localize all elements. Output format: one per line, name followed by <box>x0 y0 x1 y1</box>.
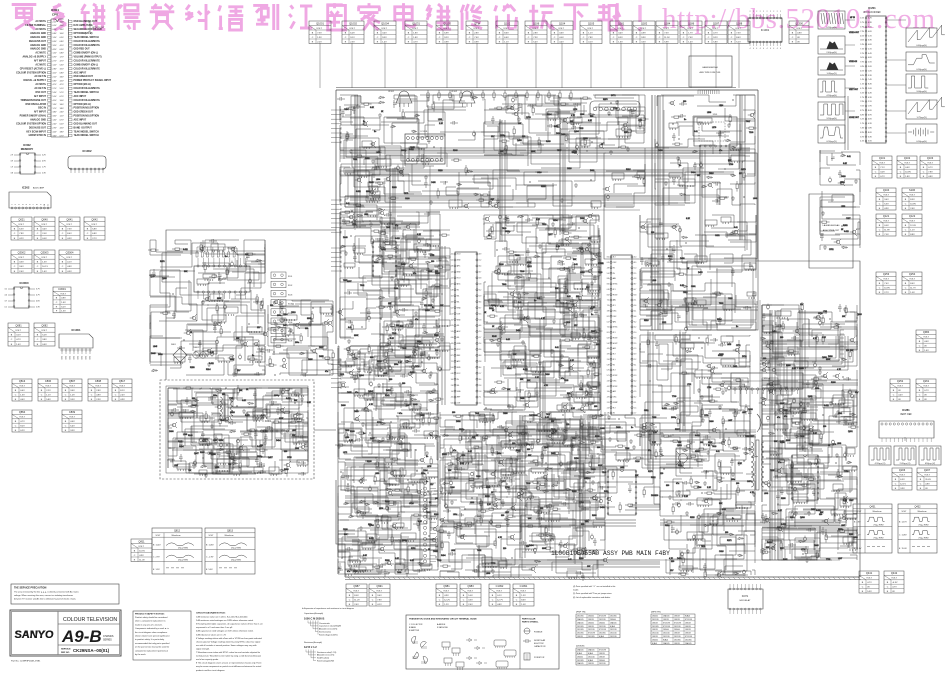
svg-text:KEY SCAN INPUT: KEY SCAN INPUT <box>26 130 46 133</box>
svg-text:R578: R578 <box>203 439 208 441</box>
wire <box>640 335 663 363</box>
svg-text:0.01: 0.01 <box>847 156 851 158</box>
resistor T239 <box>239 463 241 468</box>
svg-text:T239: T239 <box>526 483 530 485</box>
svg-text:1.9V: 1.9V <box>868 106 872 108</box>
svg-text:6.8K: 6.8K <box>242 400 247 402</box>
svg-text:1.3V: 1.3V <box>53 104 58 106</box>
capacitor L992 <box>679 102 687 106</box>
wire <box>387 327 440 374</box>
svg-text:0.3V: 0.3V <box>860 66 864 68</box>
resistor D805 <box>729 117 731 122</box>
wire <box>422 191 489 207</box>
wire <box>484 296 507 305</box>
svg-text:0.022: 0.022 <box>695 435 700 437</box>
wire <box>488 286 511 302</box>
op-amp IC281 vertical deflection <box>879 408 934 442</box>
wire <box>342 301 353 309</box>
svg-text:C: C <box>439 37 441 39</box>
svg-text:D758: D758 <box>574 458 579 460</box>
junction <box>835 462 836 463</box>
wire <box>514 346 560 371</box>
wire <box>208 283 240 301</box>
component block <box>588 356 598 363</box>
wire <box>796 528 815 542</box>
wire <box>374 169 421 181</box>
transistor voltage table Q3003 <box>34 250 55 273</box>
wire <box>310 337 333 375</box>
svg-text:KTC3198: KTC3198 <box>674 622 681 624</box>
wire <box>150 240 183 252</box>
component block <box>200 416 210 421</box>
wire <box>340 365 361 377</box>
capacitor C869 <box>472 132 475 135</box>
capacitor R541 <box>732 411 740 415</box>
svg-text:6.8K: 6.8K <box>363 555 368 557</box>
svg-text:L121: L121 <box>340 374 344 376</box>
svg-text:E: E <box>37 344 39 346</box>
wire <box>526 257 562 298</box>
ground <box>207 362 211 366</box>
wire <box>686 298 728 327</box>
wire <box>274 339 296 355</box>
wire <box>185 429 225 446</box>
diode D538 <box>558 364 564 367</box>
svg-text:1.8V: 1.8V <box>413 32 418 34</box>
voltage table Q206 <box>892 468 912 490</box>
svg-text:OSC: OSC <box>613 310 617 312</box>
component block <box>214 434 222 439</box>
wire <box>567 228 599 254</box>
op-amp IC302 audio amplifier <box>9 186 51 210</box>
svg-text:2.2V: 2.2V <box>46 390 51 392</box>
svg-text:FUSIBLE: FUSIBLE <box>534 632 543 634</box>
transistor Q973 <box>510 292 513 295</box>
svg-text:4.4V: 4.4V <box>868 92 872 94</box>
svg-text:2.4: 2.4 <box>607 359 609 361</box>
wire <box>820 327 857 336</box>
ground <box>300 397 304 401</box>
svg-text:are with all controls at norma: are with all controls at normal position… <box>196 644 257 647</box>
wire <box>230 459 259 472</box>
svg-text:100: 100 <box>763 358 766 360</box>
svg-text:1.3V: 1.3V <box>42 262 47 264</box>
wire <box>268 328 294 346</box>
diode D709 <box>730 146 736 149</box>
wire <box>850 555 857 560</box>
wire <box>473 95 526 96</box>
svg-text:C758: C758 <box>704 415 709 417</box>
resistor C130 <box>371 239 373 244</box>
transistor Q819 <box>762 368 765 371</box>
svg-text:T826: T826 <box>515 255 519 257</box>
capacitor R599 <box>213 325 217 333</box>
svg-text:COLOUR KILLER/MUTE: COLOUR KILLER/MUTE <box>74 41 101 43</box>
svg-text:Q122: Q122 <box>909 214 916 218</box>
svg-text:T465: T465 <box>520 398 524 400</box>
memory IC002 <box>11 143 47 175</box>
svg-text:B: B <box>583 32 585 34</box>
svg-text:AFT INPUT: AFT INPUT <box>34 111 47 114</box>
transistor voltage table Q082 <box>34 323 55 346</box>
svg-text:5.8V: 5.8V <box>92 229 97 231</box>
wire <box>412 164 431 185</box>
component block <box>197 279 209 284</box>
svg-text:1K: 1K <box>601 144 604 146</box>
resistor R113 <box>191 405 196 407</box>
transistor Q957 <box>494 270 497 273</box>
svg-text:-2.8V: -2.8V <box>857 548 862 550</box>
svg-text:3.3V: 3.3V <box>70 430 75 432</box>
svg-text:C1091: C1091 <box>520 584 528 588</box>
resistor D874 <box>588 402 593 404</box>
svg-text:330: 330 <box>651 232 654 234</box>
svg-text:0.9V: 0.9V <box>641 32 646 34</box>
wire <box>484 215 538 226</box>
wire <box>194 388 228 404</box>
transistor Q768 <box>464 204 467 207</box>
transistor Q422 <box>771 546 774 549</box>
wire <box>663 188 688 205</box>
wire <box>560 278 581 292</box>
svg-text:1.5: 1.5 <box>634 407 636 409</box>
wire <box>835 477 857 503</box>
svg-text:VOLT: VOLT <box>496 591 502 593</box>
wire <box>671 283 735 313</box>
svg-text:VERT OUT: VERT OUT <box>849 89 859 91</box>
capacitor C823 <box>813 363 816 366</box>
svg-text:330: 330 <box>666 485 669 487</box>
svg-text:R826: R826 <box>579 558 584 560</box>
wire <box>532 375 599 402</box>
resistor R346 <box>175 248 180 250</box>
wire <box>794 424 839 444</box>
capacitor R938 <box>762 313 766 321</box>
wire <box>384 181 422 194</box>
svg-text:E: E <box>91 399 93 401</box>
svg-text:T858: T858 <box>397 572 401 574</box>
circuit cluster east mid <box>640 215 756 333</box>
svg-text:C: C <box>345 37 347 39</box>
wire <box>754 182 756 197</box>
component block <box>791 403 805 408</box>
component block <box>174 357 185 362</box>
wire <box>267 388 308 419</box>
capacitor Q161 <box>209 239 217 243</box>
wire <box>812 330 839 337</box>
resistor L345 <box>200 245 202 250</box>
wire <box>212 414 221 428</box>
ground <box>274 322 278 326</box>
svg-text:1.1V: 1.1V <box>588 32 593 34</box>
svg-text:3.6V: 3.6V <box>60 29 65 31</box>
capacitor D244 <box>300 373 308 377</box>
resistor Q745 <box>560 268 565 270</box>
wire <box>786 465 811 478</box>
wire <box>536 302 567 329</box>
svg-text:1.8: 1.8 <box>479 391 481 393</box>
svg-text:SND: SND <box>457 260 461 262</box>
svg-text:3.4V: 3.4V <box>377 595 382 597</box>
svg-text:4.9V: 4.9V <box>444 595 449 597</box>
svg-text:B: B <box>900 167 902 169</box>
svg-text:E: E <box>636 41 638 43</box>
wire <box>646 309 672 324</box>
component block <box>395 279 409 285</box>
capacitor L368 <box>713 182 721 186</box>
diode D597 <box>276 326 282 329</box>
wire <box>185 330 203 350</box>
svg-text:3.5V: 3.5V <box>19 262 24 264</box>
svg-text:4.7K: 4.7K <box>500 306 505 308</box>
capacitor T806 <box>768 389 776 393</box>
svg-text:B: B <box>875 167 877 169</box>
wire <box>386 344 424 374</box>
svg-text:B: B <box>37 262 39 264</box>
wire <box>292 300 333 316</box>
diode D177 <box>421 297 427 300</box>
wire <box>226 399 291 407</box>
wire <box>364 147 385 165</box>
circuit cluster tuner/IF front end <box>345 95 645 209</box>
wire <box>801 534 815 557</box>
svg-text:Q405: Q405 <box>517 140 522 142</box>
svg-text:3.4: 3.4 <box>451 379 453 381</box>
transistor Q566 <box>563 118 566 121</box>
junction <box>273 351 274 352</box>
wire <box>675 308 708 330</box>
svg-text:1K: 1K <box>429 502 432 504</box>
svg-text:8.3V: 8.3V <box>618 37 623 39</box>
svg-text:3.4V: 3.4V <box>382 32 387 34</box>
svg-text:C: C <box>583 37 585 39</box>
transistor Q622 <box>514 112 517 115</box>
svg-text:IC451: IC451 <box>764 378 771 380</box>
capacitor L293 <box>669 407 677 411</box>
wire <box>416 273 440 294</box>
svg-text:4.0: 4.0 <box>5 295 8 297</box>
svg-text:1K: 1K <box>492 310 495 312</box>
svg-text:Q227: Q227 <box>548 234 553 236</box>
svg-text:Q442: Q442 <box>891 571 898 575</box>
svg-text:47u: 47u <box>399 413 402 415</box>
wire <box>832 329 857 366</box>
svg-text:3 Excepting electrolytic capa: 3 Excepting electrolytic capacitors, all… <box>196 623 264 626</box>
ground <box>806 402 810 406</box>
svg-text:330K: 330K <box>780 403 785 405</box>
capacitor C239 <box>678 228 681 231</box>
resistor Q640 <box>595 330 600 332</box>
svg-text:6.0V: 6.0V <box>350 32 355 34</box>
svg-text:AC MUTE: AC MUTE <box>35 63 46 66</box>
component block <box>576 392 588 397</box>
capacitor D252 <box>491 116 495 124</box>
svg-text:4.2V: 4.2V <box>53 49 58 51</box>
junction <box>294 402 295 403</box>
component block <box>449 200 462 207</box>
wire <box>301 370 330 375</box>
transistor Q534 <box>850 338 853 341</box>
diode D932 <box>375 258 381 261</box>
resistor L411 <box>285 469 287 474</box>
wire <box>366 155 390 170</box>
voltage table Q807 <box>62 379 82 401</box>
junction <box>678 341 679 342</box>
wire <box>189 280 209 305</box>
svg-text:Q207: Q207 <box>924 468 931 472</box>
wire <box>674 335 712 342</box>
wire <box>270 405 279 413</box>
wire <box>652 235 736 263</box>
svg-text:3.0: 3.0 <box>451 349 453 351</box>
wire <box>532 225 586 244</box>
resistor C987 <box>679 273 684 275</box>
component block <box>248 356 262 360</box>
svg-text:IN: IN <box>613 364 615 366</box>
svg-text:(5) Parts specified with“2”are: (5) Parts specified with“2”are pot jumpe… <box>573 592 612 595</box>
svg-text:1.0V: 1.0V <box>521 604 526 606</box>
transistor Q643 <box>406 225 409 228</box>
wire <box>560 345 584 368</box>
transistor Q152 <box>217 322 220 325</box>
diode D337 <box>557 260 564 263</box>
svg-text:3.5Vp-p(H): 3.5Vp-p(H) <box>826 118 836 120</box>
waveform box 2.0Vp-p vert <box>894 446 916 465</box>
svg-text:0.022: 0.022 <box>824 405 829 407</box>
wire <box>679 306 697 325</box>
transistor Q864 <box>823 374 826 377</box>
svg-text:Q432: Q432 <box>914 506 921 509</box>
wire <box>263 393 299 422</box>
wire <box>622 95 645 126</box>
wire <box>484 392 513 410</box>
wire <box>567 321 595 349</box>
note service precaution box <box>11 584 119 604</box>
capacitor L391 <box>640 257 644 265</box>
svg-text:L437: L437 <box>728 420 732 422</box>
svg-text:D148: D148 <box>343 237 348 239</box>
svg-text:0V: 0V <box>898 399 901 401</box>
svg-text:2.3V: 2.3V <box>42 173 46 175</box>
svg-text:ADC INPUT: ADC INPUT <box>74 71 87 74</box>
component block <box>375 159 391 166</box>
svg-text:2.0: 2.0 <box>607 407 609 409</box>
wire <box>801 395 852 402</box>
capacitor L551 <box>731 268 735 276</box>
op-amp IC101 IF jungle <box>451 252 482 405</box>
svg-text:330: 330 <box>370 357 373 359</box>
svg-text:100: 100 <box>725 532 728 534</box>
svg-text:VOLT: VOLT <box>879 163 885 165</box>
component block <box>514 300 523 307</box>
ground <box>706 450 710 454</box>
wire <box>725 236 745 251</box>
svg-text:L698: L698 <box>753 198 757 200</box>
svg-text:4.5Vp-p(H): 4.5Vp-p(H) <box>826 95 836 97</box>
svg-text:L188: L188 <box>652 280 656 282</box>
wire <box>807 396 816 421</box>
wire main PWB bottom edge 2 <box>345 579 860 581</box>
svg-text:1SS133: 1SS133 <box>599 656 605 658</box>
svg-text:OSD OSCILLATOR: OSD OSCILLATOR <box>25 103 46 106</box>
svg-text:2SC1815: 2SC1815 <box>577 660 584 662</box>
wire <box>568 274 582 292</box>
svg-text:4.1V: 4.1V <box>60 45 65 47</box>
svg-text:VOLT: VOLT <box>412 28 418 30</box>
wire <box>150 338 182 364</box>
svg-text:10K: 10K <box>528 518 532 520</box>
resistor C999 <box>490 391 495 393</box>
component block <box>253 416 262 420</box>
capacitor C923 <box>728 157 732 165</box>
wire <box>649 290 693 307</box>
junction <box>780 325 781 326</box>
capacitor L840 <box>218 276 222 284</box>
svg-text:3.7V: 3.7V <box>860 136 864 138</box>
diode D836 <box>376 255 383 258</box>
junction <box>169 447 170 448</box>
component block <box>297 460 308 465</box>
svg-text:4.1V: 4.1V <box>860 88 864 90</box>
voltage table Q442 <box>884 571 904 593</box>
transistor Q523 <box>642 423 645 426</box>
svg-text:(7V)p-p HORIZ: (7V)p-p HORIZ <box>873 538 883 540</box>
svg-text:COLOUR KILLER/MUTE: COLOUR KILLER/MUTE <box>74 45 101 47</box>
capacitor D327 <box>384 213 392 217</box>
svg-text:C: C <box>439 599 441 601</box>
transistor Q586 <box>842 516 845 519</box>
svg-text:E: E <box>879 208 881 210</box>
component block <box>721 217 731 222</box>
svg-text:7.1V: 7.1V <box>880 167 885 169</box>
voltage table C806 <box>38 379 58 401</box>
svg-text:3.4V: 3.4V <box>618 32 623 34</box>
capacitor R491 <box>678 114 686 118</box>
svg-text:100: 100 <box>270 305 273 307</box>
capacitor C628 <box>417 239 420 242</box>
diode D165 <box>231 462 238 465</box>
svg-text:and a low capacity probe.: and a low capacity probe. <box>196 658 219 661</box>
capacitor D853 <box>594 307 598 315</box>
wire <box>584 307 600 337</box>
wire <box>541 138 601 168</box>
svg-text:4.1V: 4.1V <box>53 72 58 74</box>
resistor T828 <box>368 347 370 352</box>
component block <box>697 118 712 123</box>
connector left edge y110 <box>331 109 341 144</box>
svg-text:1.6V: 1.6V <box>61 302 66 304</box>
svg-text:Q102: Q102 <box>904 156 911 160</box>
svg-text:5.0V: 5.0V <box>868 88 872 90</box>
svg-text:T382: T382 <box>360 285 364 287</box>
ground <box>829 401 833 405</box>
wire <box>385 229 406 251</box>
wire <box>705 409 750 433</box>
svg-text:B: B <box>879 283 881 285</box>
capacitor Q519 <box>570 297 574 305</box>
diode D332 <box>428 253 434 256</box>
svg-text:Q983: Q983 <box>467 584 474 588</box>
op-amp IC301 audio output <box>791 455 819 500</box>
svg-text:5.9V: 5.9V <box>53 92 58 94</box>
op-amp IC501 chroma/deflection jungle <box>607 255 637 415</box>
svg-text:5.9: 5.9 <box>634 375 636 377</box>
capacitor D734 <box>693 162 697 170</box>
svg-text:PRODUCT SAFETY NOTICE:: PRODUCT SAFETY NOTICE: <box>135 613 165 616</box>
wire <box>560 387 600 410</box>
wire <box>351 96 389 125</box>
svg-text:B+: B+ <box>426 456 429 458</box>
